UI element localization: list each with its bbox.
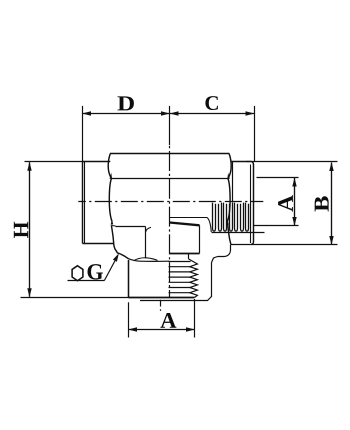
male thread crest lines [169, 262, 191, 293]
extension line right of bottom A (x=194.5) [194, 299, 196, 338]
male stub lower step line [140, 297, 212, 301]
arrowheads of B dimension [329, 162, 333, 245]
extension line top of right A (y=177.5) [257, 177, 299, 179]
G underline [68, 280, 105, 282]
dimension line H (vertical, x=29.5) [29, 162, 31, 297]
hex left end: middle face arc [109, 179, 112, 222]
inner rectangle 1 (left branch face) top edge [116, 226, 146, 228]
bore bottom line of right port [212, 232, 265, 234]
hex right cusp marks [226, 173, 230, 225]
right cap outer end face [251, 165, 254, 245]
main horizontal centerline (dash-dot) [78, 201, 263, 203]
right cap left edge (above threads) [232, 162, 234, 203]
arrowheads of right A dimension [292, 178, 296, 227]
hex chamfer line (upper) [111, 178, 228, 180]
G leader arrowhead [113, 253, 119, 262]
label D [117, 96, 133, 110]
label A bottom [160, 313, 176, 328]
right cap inner end face line [250, 165, 252, 244]
extension line left of bottom A (x=128.5) [128, 302, 130, 337]
extension line top of H (y=161.5) [25, 161, 85, 163]
hex left lower silhouette curve down to branch [111, 225, 128, 258]
arrowheads of H dimension [27, 162, 31, 298]
label G with hexagon symbol [88, 264, 103, 279]
inner rectangle 1 right edge [145, 227, 147, 259]
branch vertical centerline below stub (dash + dot) [160, 300, 162, 307]
short lower chamfer line (left) [111, 225, 115, 228]
male stub left edge [128, 260, 130, 298]
small lens mark at rect1 top-right corner [146, 227, 151, 232]
left collar bottom edge [83, 243, 114, 245]
extension line left of D (x=82.5) [82, 106, 84, 161]
thread end wall of right port [250, 203, 252, 232]
dimension line B (vertical, x=331.5) [331, 163, 333, 245]
extension line between D and C (x=169.5) [169, 106, 171, 145]
extension line bottom of right A (y=225.5) [254, 225, 299, 227]
hex left cusp marks [110, 173, 114, 225]
left collar top edge [83, 161, 111, 163]
intersection lens bump [134, 258, 158, 261]
short vertical at thread region top [188, 254, 190, 259]
label B (rotated) [315, 196, 329, 211]
hex left end: upper chamfer arc [108, 154, 111, 179]
arrowheads of bottom A dimension [128, 327, 195, 331]
label H (rotated) [14, 222, 28, 238]
intersection wavy line under hex (branch root) [129, 259, 170, 262]
step horizontal and fillet up to cap bottom [218, 245, 231, 257]
label A right (rotated) [278, 195, 293, 212]
dimension line D-C (horizontal, y=113.5) [83, 113, 255, 115]
G leader line [104, 258, 116, 281]
male stub bottom face [129, 297, 195, 299]
bore entry line (thin, y=217.5) with curve into bore bottom [170, 218, 212, 233]
inner rectangle 2 top edge (thick, tilted) [170, 223, 200, 226]
hex right end: upper chamfer arc [228, 154, 231, 179]
inner rectangle 2 right edge [199, 225, 201, 253]
extension line top of B (y=161.5) [246, 161, 338, 163]
male thread sawtooth profile [189, 259, 198, 298]
dimension line A bottom (horizontal, y=335.5) [129, 329, 195, 331]
inner rectangle 2 bottom edge [170, 253, 200, 255]
extension line bottom of B / cap bottom (y=244.5) [231, 244, 338, 246]
fillet from boss edge up to step [212, 257, 218, 263]
hex right lower silhouette curve [227, 222, 231, 245]
male stub right boss edge [211, 263, 213, 298]
extension line right of C (x=254.5) [254, 106, 256, 161]
hexagon symbol (wrench size) [72, 266, 83, 281]
arrowheads of D-C dimension [82, 111, 255, 115]
right cap top edge with rounded corner [231, 162, 254, 166]
extension line bottom of H (y=297.5) [21, 297, 131, 299]
hex body top edge [110, 153, 229, 155]
vertical line through branch (x=169.5) [169, 146, 171, 297]
left port collar: end face double line [82, 162, 84, 244]
female threads of right port (hatch) [213, 203, 249, 232]
label C [205, 96, 218, 110]
dimension line A right (vertical, x=294.5) [294, 178, 296, 226]
hex right end: middle face arc [227, 179, 230, 222]
